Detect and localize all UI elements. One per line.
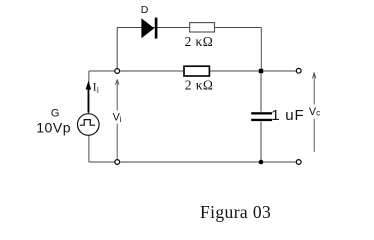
terminal (open) middle right [296,68,301,73]
svg-text:D: D [141,4,149,16]
wire capacitor to bottom rail [260,121,262,162]
wire left drop from top rail to node A [116,28,118,69]
svg-text:2 κΩ: 2 κΩ [185,34,214,49]
source G (pulse generator) [78,114,100,136]
diode D [141,18,157,39]
resistor R2 (2 kΩ middle) [184,66,209,76]
wire top rail [117,27,261,29]
capacitor C1 plates [251,112,272,121]
svg-text:10Vp: 10Vp [36,120,71,136]
svg-text:Ii: Ii [93,81,100,94]
wire left branch upper [88,71,90,114]
arrow Vc (measurement) [313,72,316,151]
arrow Vi (measurement) [115,79,119,159]
wire junction to capacitor [260,71,262,112]
junction dot bottom rail [259,160,264,165]
svg-text:2 κΩ: 2 κΩ [185,78,214,93]
svg-text:Figura 03: Figura 03 [200,202,271,222]
wire left branch lower [88,135,90,162]
wire middle rail [89,70,296,72]
svg-text:Vc: Vc [309,106,321,118]
svg-text:G: G [51,107,60,119]
wire bottom rail [89,161,296,163]
terminal (open) bottom right [296,160,301,165]
resistor R1 (2 kΩ top) [190,23,215,32]
svg-text:Vi: Vi [113,112,122,124]
svg-text:1 uF: 1 uF [271,107,304,124]
wire right drop top rail to junction [260,28,262,72]
node A (open circle junction at Vi top node) [115,69,120,74]
node B (open circle on bottom rail) [115,160,120,165]
junction dot middle rail [259,69,263,73]
current arrow Ii [86,81,92,113]
